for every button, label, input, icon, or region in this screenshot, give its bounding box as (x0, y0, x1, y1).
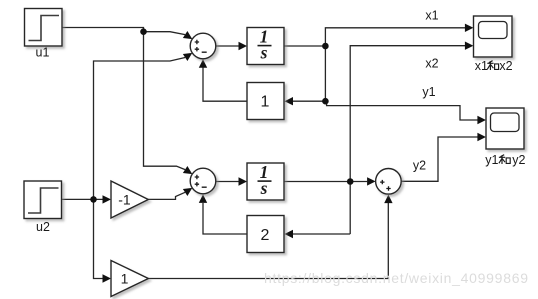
arrowhead into integrator2 (239, 177, 248, 185)
wire u2 junction up to sum1 lower port (94, 58, 186, 200)
wire u2 to gain -1 (62, 198, 103, 200)
svg-text:u1: u1 (36, 46, 50, 60)
wire gain -1 out to sum2 lower port (148, 192, 185, 199)
svg-text:y1: y1 (485, 153, 498, 167)
step source block u2 (24, 181, 62, 219)
wire y1 net to scope2 port1 (325, 101, 477, 120)
junction dot on u2 wire (90, 196, 97, 203)
wire u2 junction down to gain 1 (94, 199, 103, 278)
arrowhead into sum2 upper port (183, 166, 195, 178)
scope block x1 and x2 (474, 16, 513, 57)
integrator block 1/s (upper) (247, 26, 284, 64)
junction dot x1 at integrator1 output (322, 43, 329, 50)
scope block y1 and y2 (486, 108, 524, 149)
arrowhead into integrator1 (239, 42, 248, 50)
gain block 2 (feedback, lower) (247, 216, 284, 253)
svg-text:1: 1 (121, 271, 129, 287)
wire y2 net: sum3 out to scope2 port2 (401, 137, 478, 181)
sum block sum3 (376, 169, 402, 195)
wire sum2 to integrator2 (216, 181, 239, 183)
wire u1 to junction and down to sum2 upper port (62, 28, 185, 170)
svg-text:-1: -1 (118, 192, 131, 208)
arrowhead into sum2 lower port (183, 184, 195, 196)
arrowhead into scope2 port2 (477, 133, 486, 141)
arrowhead into gain -1 (103, 195, 112, 203)
gain triangle -1 (111, 181, 148, 218)
arrowhead into scope2 port1 (477, 116, 486, 124)
wire branch junction to sum1 upper port (144, 32, 186, 35)
svg-text:y2: y2 (512, 153, 525, 167)
wire block1 out to sum1 bottom port (203, 68, 247, 102)
arrowhead into scope1 port1 (465, 24, 474, 32)
sum block sum2 (190, 168, 216, 194)
svg-text:x2: x2 (425, 57, 438, 71)
arrowhead into sum2 bottom port (199, 194, 207, 203)
svg-text:y1: y1 (422, 85, 435, 99)
arrowhead into sum1 lower port (183, 49, 195, 61)
arrowhead into sum1 bottom port (199, 59, 207, 68)
label y1和y2 (485, 153, 525, 167)
gain triangle 1 (111, 261, 148, 297)
junction dot x2 at integrator2 output (347, 178, 354, 185)
wire gain 1 out to sum3 bottom port (148, 203, 388, 279)
svg-text:y2: y2 (413, 159, 426, 173)
label x1和x2 (475, 59, 513, 73)
arrowhead into block2 right side (285, 230, 294, 238)
wire x2 net: integrator2 out to junction, up to scope1 port2, down to block2 (284, 46, 465, 234)
wire sum1 to integrator1 (216, 45, 239, 47)
junction dot on u1 wire (140, 28, 147, 35)
svg-text:s: s (260, 42, 268, 62)
wire junction to sum3 left port (350, 181, 367, 183)
svg-text:x1: x1 (475, 59, 488, 73)
wire x1 net: integrator1 out, up corner, to scope1 port1 (284, 28, 465, 101)
arrowhead into sum3 left port (367, 177, 376, 185)
junction dot x1 at block1 input (322, 98, 329, 105)
integrator block 1/s (lower) (247, 162, 284, 200)
gain block 1 (feedback, upper) (247, 83, 284, 120)
arrowhead into sum3 bottom port (384, 195, 392, 204)
svg-text:2: 2 (261, 227, 270, 244)
wire into block 1 (right to left) (293, 100, 325, 102)
svg-text:x2: x2 (499, 59, 512, 73)
svg-text:x1: x1 (425, 9, 438, 23)
step source block u1 (25, 9, 63, 47)
arrowhead into block1 right side (285, 97, 294, 105)
arrowhead into scope1 port2 (465, 42, 474, 50)
svg-text:https://blog.csdn.net/weixin_4: https://blog.csdn.net/weixin_40999869 (264, 270, 528, 286)
sum block sum1 (190, 33, 216, 59)
svg-text:u2: u2 (36, 220, 50, 234)
arrowhead into sum1 upper port (183, 31, 195, 43)
wire block2 out to sum2 bottom port (203, 203, 247, 234)
svg-text:1: 1 (261, 94, 270, 111)
svg-text:s: s (260, 178, 268, 198)
arrowhead into gain 1 (103, 274, 112, 282)
